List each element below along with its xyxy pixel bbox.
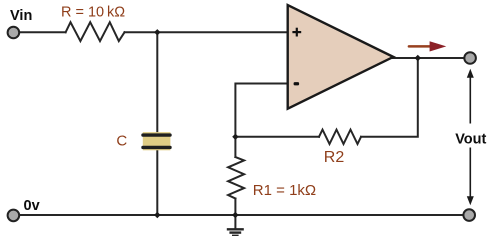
svg-text:Vin: Vin	[10, 8, 32, 24]
svg-text:R = 10 kΩ: R = 10 kΩ	[61, 5, 125, 21]
svg-text:Vout: Vout	[455, 132, 486, 148]
svg-text:C: C	[116, 133, 127, 150]
svg-text:R1 = 1kΩ: R1 = 1kΩ	[253, 182, 316, 199]
svg-text:R2: R2	[324, 149, 345, 166]
svg-text:0v: 0v	[24, 198, 40, 214]
